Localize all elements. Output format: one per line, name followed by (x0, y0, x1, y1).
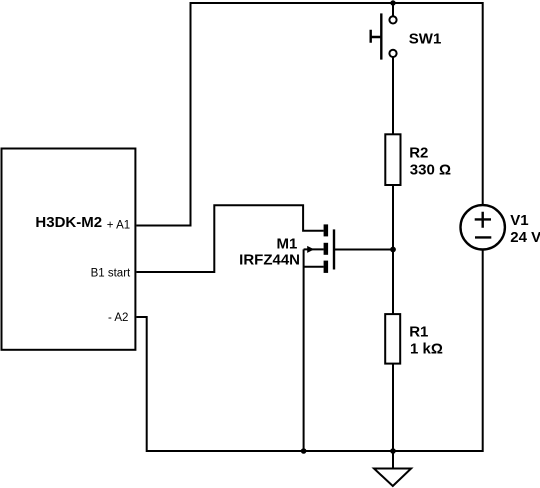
wire SW1 bottom to R2 top (392, 57, 394, 136)
transistor M1 gate plate (333, 229, 335, 269)
wire gate to node (335, 249, 393, 251)
voltage source V1 (461, 205, 505, 249)
svg-text:- A2: - A2 (108, 312, 128, 324)
svg-text:SW1: SW1 (409, 30, 442, 47)
node SW1 top rail junction (390, 0, 395, 5)
svg-text:330 Ω: 330 Ω (410, 161, 451, 178)
svg-text:24 V: 24 V (510, 229, 540, 246)
switch SW1 terminal bottom (389, 50, 396, 57)
transistor M1 channel bar drain (324, 224, 329, 236)
svg-text:R2: R2 (409, 145, 428, 162)
svg-text:R1: R1 (409, 324, 428, 341)
box H3DK-M2 outline (2, 149, 136, 350)
transistor M1 channel bar middle (324, 243, 329, 255)
wire -A2 pin to bottom rail to V1 bottom (136, 249, 482, 451)
switch SW1 actuator (371, 30, 382, 43)
wire M1 source stub (304, 266, 324, 268)
pin label - A2 (108, 312, 128, 324)
resistor R2 (385, 134, 400, 185)
wire R1 bottom to bottom rail (392, 363, 394, 451)
svg-text:V1: V1 (510, 212, 528, 229)
transistor M1 channel bar source (324, 261, 329, 273)
label H3DK-M2 (35, 214, 102, 231)
pin label B1 start (91, 268, 131, 280)
wire +A1 pin to top rail to V1 top (136, 3, 482, 226)
ground (374, 451, 411, 486)
node ground junction (390, 448, 396, 454)
svg-text:H3DK-M2: H3DK-M2 (35, 214, 102, 231)
switch SW1 button bar (380, 13, 382, 59)
switch SW1 terminal top (389, 16, 396, 23)
label SW1 (409, 30, 442, 47)
svg-text:IRFZ44N: IRFZ44N (239, 251, 300, 268)
wire R2 bottom through gate node to R1 top (392, 185, 394, 315)
svg-text:M1: M1 (276, 236, 297, 253)
transistor M1 body arrow (304, 246, 324, 253)
label M1 IRFZ44N (239, 236, 300, 269)
label V1 24 V (510, 212, 540, 246)
wire B1 start pin to M1 drain (136, 205, 323, 272)
svg-text:B1 start: B1 start (91, 268, 131, 280)
wire SW1 top stub (392, 3, 394, 17)
pin label + A1 (107, 220, 130, 232)
wire M1 source down to bottom rail (303, 249, 305, 451)
svg-text:+ A1: + A1 (107, 220, 130, 232)
svg-text:1 kΩ: 1 kΩ (410, 341, 443, 358)
resistor R1 (385, 314, 400, 364)
node gate divider junction (390, 247, 396, 253)
label R1 1 kohm (409, 324, 443, 358)
label R2 330 ohm (409, 145, 451, 179)
node source bottom rail junction (301, 448, 307, 454)
